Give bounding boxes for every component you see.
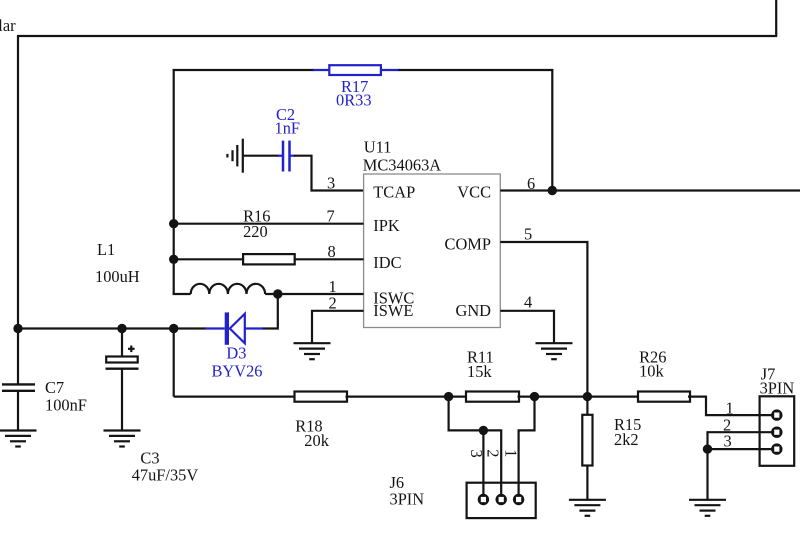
wire VCC pin 6 to right edge <box>500 189 800 191</box>
pin number 1 (J7) <box>726 399 734 418</box>
pin pad J6-2 <box>496 494 507 505</box>
node J6 pin3 junction <box>479 426 488 435</box>
pin number 8 (IDC) <box>328 242 336 261</box>
svg-text:3PIN: 3PIN <box>760 378 795 397</box>
pin number 3 (J6, rotated) <box>467 449 486 457</box>
node IPK junction <box>169 219 178 228</box>
resistor R18 <box>295 392 348 450</box>
svg-text:3: 3 <box>467 449 486 457</box>
svg-text:L1: L1 <box>97 240 115 259</box>
node IDC junction <box>169 255 178 264</box>
svg-text:2: 2 <box>483 449 502 457</box>
node Solar (net label) <box>0 16 16 35</box>
svg-text:GND: GND <box>455 301 491 320</box>
svg-text:100nF: 100nF <box>45 396 87 415</box>
resistor R16 label <box>243 207 270 241</box>
capacitor C3 (electrolytic) <box>106 328 199 485</box>
wire bottom rail to R18 <box>174 396 296 398</box>
node R11 right junction <box>530 392 539 401</box>
wire R17 rail left segment <box>173 69 314 71</box>
resistor R26 <box>638 347 690 401</box>
wire R18 to R11 <box>346 396 468 398</box>
ground (GND pin) <box>536 343 573 359</box>
pin number 2 (ISWE) <box>329 294 337 313</box>
inductor L1 label <box>95 240 140 286</box>
wire COMP pin 5 <box>500 242 587 398</box>
inductor L1 <box>173 284 364 294</box>
wire J6 left branch (pins 2,3) <box>449 397 502 500</box>
svg-text:IPK: IPK <box>373 216 400 235</box>
pin number 3 (J7) <box>724 432 732 451</box>
node COMP/R15 junction <box>583 392 592 401</box>
svg-text:COMP: COMP <box>445 234 491 253</box>
wire IDC pin 8 left <box>174 258 245 260</box>
svg-text:Solar: Solar <box>0 16 16 35</box>
svg-text:1nF: 1nF <box>275 119 301 138</box>
wire left vertical to C7 node <box>17 35 19 329</box>
wire from ground to C2 left plate <box>243 155 279 157</box>
wire GND pin 4 <box>500 311 554 343</box>
ground (C3) <box>104 431 141 447</box>
ground (J7) <box>689 500 726 516</box>
node R11 left junction <box>444 392 453 401</box>
svg-text:6: 6 <box>527 174 535 193</box>
svg-text:2: 2 <box>329 294 337 313</box>
connector J7 <box>760 364 795 466</box>
diode D3 <box>205 312 263 380</box>
svg-text:D3: D3 <box>226 344 246 363</box>
pin number 6 (VCC) <box>527 174 535 193</box>
ground (rotated, at C2) <box>227 139 242 173</box>
svg-text:IDC: IDC <box>373 253 401 272</box>
svg-text:TCAP: TCAP <box>373 182 415 201</box>
svg-text:20k: 20k <box>304 431 329 450</box>
resistor R11 <box>466 348 519 402</box>
svg-text:3: 3 <box>327 174 335 193</box>
svg-text:U11: U11 <box>364 137 392 156</box>
svg-text:7: 7 <box>327 207 335 226</box>
node ISWC junction <box>273 289 282 298</box>
wire J6 right branch (pin 1) <box>519 397 535 500</box>
svg-text:BYV26: BYV26 <box>212 362 263 381</box>
resistor R17 <box>313 65 399 109</box>
svg-text:5: 5 <box>524 225 532 244</box>
svg-text:C7: C7 <box>45 378 64 397</box>
wire mid rail (C7 node to diode) <box>18 327 206 329</box>
node R18 drop junction <box>169 324 178 333</box>
svg-text:15k: 15k <box>467 362 492 381</box>
wire J7 pin 3 and ground drop <box>708 449 777 500</box>
wire J7 pin 2 <box>708 432 777 449</box>
node C7 junction <box>13 324 22 333</box>
wire vertical from R17 rail down to coil corner <box>173 69 175 295</box>
wire C2 right plate to TCAP pin <box>294 156 364 191</box>
svg-text:100uH: 100uH <box>95 267 140 286</box>
svg-text:ISWE: ISWE <box>373 301 413 320</box>
ground (C7) <box>0 431 37 447</box>
svg-text:8: 8 <box>328 242 336 261</box>
pin pad J7-2 <box>771 427 782 438</box>
svg-text:2k2: 2k2 <box>614 430 639 449</box>
connector J6 <box>390 473 536 518</box>
ground (R15) <box>569 500 606 516</box>
ground (ISWE) <box>294 343 331 359</box>
resistor R16 body (on IDC line) <box>243 254 295 264</box>
wire R11 to R26 <box>518 396 640 398</box>
wire J6 pin 3 drop <box>482 430 484 499</box>
pin pad J7-3 <box>771 443 782 454</box>
pin number 7 (IPK) <box>327 207 335 226</box>
pin number 3 (TCAP) <box>327 174 335 193</box>
node J7 pins 2-3 junction <box>703 444 712 453</box>
wire IPK pin 7 <box>174 223 364 225</box>
wire R26 to J7 pin 1 <box>688 397 777 416</box>
pin number 2 (J7) <box>723 416 731 435</box>
svg-text:MC34063A: MC34063A <box>363 156 441 175</box>
svg-text:220: 220 <box>243 222 268 241</box>
pin number 4 (GND) <box>524 292 532 311</box>
svg-text:10k: 10k <box>639 362 664 381</box>
wire drop from mid rail to bottom rail <box>173 329 175 397</box>
capacitor C2 <box>275 105 301 172</box>
svg-text:4: 4 <box>524 292 532 311</box>
op-amp U11 (MC34063A converter IC) <box>363 137 501 327</box>
svg-text:3PIN: 3PIN <box>390 490 425 509</box>
pin number 1 (J6, rotated) <box>501 449 520 457</box>
svg-text:0R33: 0R33 <box>336 91 372 110</box>
svg-text:1: 1 <box>501 449 520 457</box>
wire top rail right vertical <box>775 0 777 36</box>
resistor R15 <box>582 397 641 500</box>
pin number 2 (J6, rotated) <box>483 449 502 457</box>
pin number 5 (COMP) <box>524 225 532 244</box>
wire top rail horizontal <box>17 35 777 37</box>
pin pad J7-1 <box>771 409 782 420</box>
pin number 1 (ISWC) <box>329 277 337 296</box>
wire IDC pin 8 right <box>294 258 364 260</box>
pin pad J6-1 <box>513 494 524 505</box>
wire ISWC junction down to diode anode <box>262 294 278 329</box>
node VCC junction <box>548 186 557 195</box>
svg-text:VCC: VCC <box>457 182 491 201</box>
svg-text:47uF/35V: 47uF/35V <box>132 466 199 485</box>
pin pad J6-3 <box>478 494 489 505</box>
capacitor C7 <box>2 328 87 431</box>
node C3 junction <box>117 324 126 333</box>
wire ISWE pin 2 <box>312 311 364 343</box>
wire vertical from R17 rail down to VCC node <box>551 69 553 191</box>
wire R17 rail right segment <box>398 69 554 71</box>
svg-text:3: 3 <box>724 432 732 451</box>
